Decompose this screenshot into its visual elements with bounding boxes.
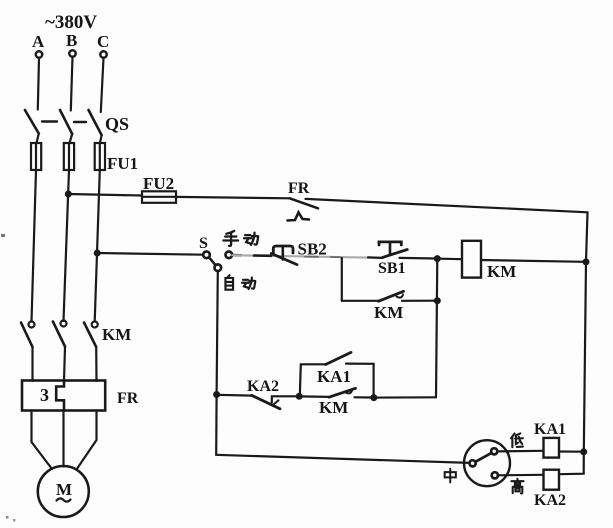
- terminal C: [100, 51, 106, 57]
- wire phase C top: [101, 58, 104, 112]
- KA1 box right edge: [373, 364, 375, 398]
- label manual (dong): [244, 233, 258, 245]
- node B-FU2 junction: [65, 191, 72, 198]
- switch QS pole C blade: [89, 110, 102, 135]
- label auto (dong): [242, 277, 255, 289]
- wire FR box to motor left: [32, 411, 53, 470]
- wire speckle 1: [305, 256, 318, 258]
- button SB1 cap: [379, 242, 401, 245]
- fuse FU2: [142, 191, 176, 203]
- svg-text:KA1: KA1: [317, 367, 351, 386]
- svg-text:KM: KM: [102, 325, 131, 344]
- wire KA1 coil to bus: [559, 450, 582, 452]
- button SB2 cap: [273, 246, 293, 253]
- fuse FU1 pole A: [31, 143, 41, 170]
- wire SB2 to SB1 dark stub: [368, 256, 383, 259]
- coil KA2: [544, 470, 560, 490]
- FR heater element jog: [56, 381, 64, 411]
- contact KA2 tick: [274, 400, 279, 404]
- contactor KM pole C contact: [84, 322, 98, 348]
- svg-text:3: 3: [40, 385, 49, 405]
- wire phase B middle: [64, 170, 70, 321]
- node SB1 junction: [434, 255, 441, 262]
- svg-text:KM: KM: [487, 262, 516, 281]
- wire B to FR box: [64, 347, 65, 382]
- KA1 box top edge right: [346, 363, 374, 365]
- contact KM aux2 blade: [329, 388, 356, 397]
- svg-text:FU1: FU1: [107, 154, 138, 173]
- node KM aux junction: [434, 297, 441, 304]
- wire SB1 to junction: [400, 257, 437, 260]
- contact KM aux2 hook: [346, 391, 353, 394]
- contact KA1 blade: [326, 352, 351, 364]
- KA1 box top edge left: [301, 363, 326, 365]
- wire FR to right corner: [306, 199, 588, 212]
- svg-text:C: C: [97, 32, 109, 51]
- svg-text:S: S: [199, 235, 208, 252]
- svg-text:KA1: KA1: [534, 421, 566, 438]
- wire phase A middle: [32, 170, 37, 322]
- contact KA2 blade: [252, 395, 281, 409]
- label auto (zi): [225, 275, 233, 290]
- switch S blade: [209, 257, 216, 265]
- wire right bus: [559, 212, 588, 474]
- speck left edge: [1, 234, 5, 237]
- svg-text:A: A: [32, 32, 45, 51]
- label motor tilde: [57, 498, 71, 501]
- contact KM aux blade: [379, 291, 404, 301]
- switch S auto contact: [215, 264, 222, 271]
- wire speckle 2: [331, 256, 340, 258]
- wire KM coil to bus: [481, 260, 585, 262]
- coil KA1: [544, 438, 560, 458]
- label manual (shou): [223, 231, 238, 246]
- float switch body: [464, 440, 510, 486]
- terminal B: [69, 50, 75, 56]
- wire FU2 left: [68, 194, 142, 196]
- svg-text:FR: FR: [288, 180, 310, 197]
- wire low to KA1 coil: [497, 450, 543, 453]
- QS linkage dash 1: [42, 120, 57, 122]
- switch S pivot: [203, 252, 210, 259]
- wire stub at manual contact: [232, 254, 241, 257]
- wire A to fuse: [37, 134, 39, 144]
- coil KM: [462, 241, 481, 278]
- wire FU2 to FR: [176, 197, 290, 198]
- contactor KM pole A contact: [21, 322, 35, 348]
- svg-text:KM: KM: [319, 398, 348, 417]
- node KA1 box left: [296, 393, 303, 400]
- wire phase A top: [38, 58, 39, 110]
- wire KM aux bottom right: [402, 300, 436, 302]
- svg-text:B: B: [66, 31, 77, 50]
- wire phase B top: [71, 57, 73, 111]
- svg-text:KA2: KA2: [534, 492, 566, 509]
- button SB2 blade: [271, 254, 297, 265]
- label middle (zhong): [445, 469, 456, 483]
- FR thermal element: [288, 212, 310, 220]
- contact FR blade: [290, 198, 318, 208]
- svg-text:~380V: ~380V: [45, 12, 97, 33]
- contact KM aux hook: [397, 295, 404, 298]
- button SB2 stem: [281, 247, 284, 260]
- svg-text:FR: FR: [117, 390, 139, 407]
- speck bottom left 2: [13, 519, 16, 522]
- fuse FU1 pole B: [64, 143, 74, 170]
- KA1 box left edge: [300, 364, 301, 396]
- label high (gao): [511, 479, 523, 494]
- wire KM aux bottom left: [342, 300, 379, 302]
- wire parallel left vertical: [341, 258, 343, 301]
- fuse FU1 pole C: [95, 143, 105, 170]
- svg-text:KA2: KA2: [247, 378, 279, 395]
- label low (di): [511, 433, 523, 447]
- node KA1 bus junction: [580, 448, 587, 455]
- wire KM aux2 right: [355, 396, 373, 398]
- wire stub left of SB2: [254, 254, 271, 257]
- button SB1 blade: [383, 250, 408, 258]
- motor M: [38, 466, 89, 517]
- svg-text:SB1: SB1: [378, 260, 406, 277]
- wire phase C middle: [95, 170, 100, 322]
- svg-text:QS: QS: [105, 114, 129, 134]
- float switch low contact: [491, 448, 497, 454]
- node KA2 junction left: [213, 391, 220, 398]
- QS linkage dash 2: [74, 121, 86, 123]
- float switch high contact: [492, 472, 498, 478]
- switch QS pole A blade: [25, 110, 39, 134]
- speck bottom left: [6, 516, 9, 519]
- wire KA1 box to vertical: [374, 396, 436, 399]
- wire left vertical to bottom corner: [216, 395, 470, 463]
- wire KM aux2 left: [299, 395, 329, 398]
- float switch blade: [475, 453, 491, 462]
- node KM bus junction: [583, 258, 590, 265]
- wire A to FR box: [31, 347, 33, 381]
- svg-text:M: M: [56, 480, 72, 499]
- node C-S junction: [94, 250, 101, 257]
- wire SB1 junction to KM coil: [441, 258, 463, 261]
- relay FR heater box: [22, 381, 105, 411]
- wire C to fuse: [100, 135, 102, 143]
- wire C to FR box: [95, 347, 98, 381]
- contactor KM pole B contact: [53, 321, 67, 347]
- wire auto vertical down: [217, 271, 218, 394]
- wire S to SB2 gray: [232, 255, 381, 258]
- contact KA2 step: [272, 396, 297, 402]
- wire KA2 left: [217, 394, 252, 397]
- svg-text:KM: KM: [374, 303, 403, 322]
- node KA1 box right: [370, 394, 377, 401]
- wire FR box to motor center: [62, 411, 64, 467]
- switch QS pole B blade: [60, 110, 72, 134]
- wire FR box to motor right: [78, 411, 97, 469]
- switch S manual contact: [226, 252, 233, 259]
- button SB1 stem: [389, 243, 392, 254]
- terminal A: [36, 51, 42, 57]
- wire C to S: [97, 253, 203, 255]
- wire B to fuse: [70, 134, 73, 143]
- svg-text:FU2: FU2: [143, 174, 174, 193]
- float switch pivot: [470, 460, 476, 466]
- svg-text:SB2: SB2: [298, 240, 327, 259]
- wire junction vertical down: [436, 259, 437, 398]
- wire high to KA2 coil: [498, 474, 544, 477]
